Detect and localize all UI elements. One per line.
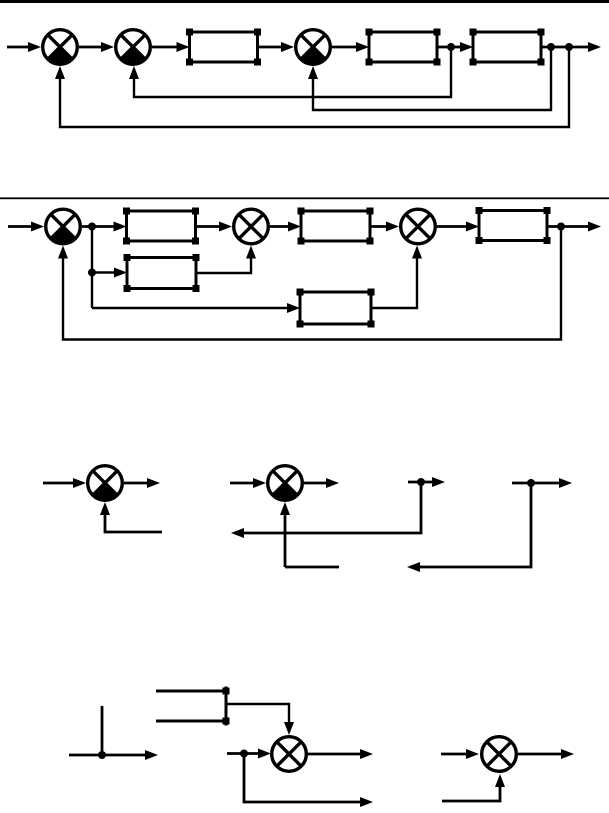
arrowhead output [588,222,601,232]
arrowhead into block H2 [287,303,300,313]
arrowhead fig3a output [147,478,160,488]
wire: S6 to block G6 [437,225,467,228]
wire: G5 to S6 [370,225,387,228]
arrowhead fig3c output [432,477,445,487]
arrowhead into block G1 [177,42,190,52]
node takeoff 2 [547,43,555,51]
arrowhead into summer S6 [386,222,399,232]
wire: G2 to block G3 with takeoff node [437,46,461,49]
wire: branch to block H1 [92,271,115,273]
wire: S3 to block G2 [332,46,357,49]
arrowhead into summer S1 [28,42,41,52]
summer S9 [272,737,307,772]
wire: H3 output over and down into S9 [228,704,290,723]
wire: fig4b lower branch [244,754,361,803]
arrowhead fig4c output [561,749,574,759]
summer S8 [268,466,303,501]
block G3 [473,32,541,62]
arrowhead into block H1 [114,268,127,278]
arrowhead into summer S4 [31,222,44,232]
wire: fig4a vertical stub [101,706,104,755]
node fig3c [417,478,425,486]
arrowhead up into S6 [412,246,422,259]
arrowhead fig4a output [145,750,158,760]
arrowhead up into S4 [58,246,68,259]
arrowhead into summer S3 [281,42,294,52]
wire: fig3c vertical down [244,482,421,533]
wire: fig3a input [43,482,74,485]
wire: fig4b main line [227,752,259,755]
block H1 [127,258,196,289]
arrowhead up into S2 [129,66,139,79]
arrowhead into summer S7 [73,478,86,488]
wire: fig3d takeoff line [512,482,560,485]
wire: G1 to S3 [258,46,283,49]
summer S3 [296,30,331,65]
wire: fig3d vertical down and left [420,483,531,567]
arrowhead up into S1 [55,66,65,79]
arrowhead up into S10 [495,774,505,787]
summer S10 [482,737,517,772]
wire: S4 to block G4 with takeoff node [82,225,115,228]
wire: fig3c takeoff line [408,481,433,484]
summer S2 [116,30,151,65]
wire: input [8,225,32,228]
arrowhead into summer S10 [466,749,479,759]
wire: H2 output up into S6 [371,258,417,308]
arrowhead into block G4 [114,222,127,232]
wire: S9 output [307,753,361,756]
block H3 (open left) [156,687,226,726]
block G1 [190,32,258,62]
block G4 [127,211,196,241]
wire: S2 to block G1 [152,46,178,49]
wire: G3 to output [541,46,588,49]
wire: branch 2 to block H2 [92,307,288,309]
wire: fig3a output [124,482,147,485]
wire: feedback loop A (node 451 down to S2) [134,47,451,97]
arrowhead up into S8 [280,502,290,515]
arrowhead into block G5 [288,222,301,232]
summer S1 [43,30,78,65]
summer S7 [88,466,123,501]
node branch [88,269,96,277]
wire: G6 to output [547,225,589,228]
arrowhead into summer S5 [219,222,232,232]
arrowhead into block G2 [356,42,369,52]
arrowhead fig4b output [360,749,373,759]
arrowhead left fig3c [231,528,244,538]
separator line between diagram 1 and diagram 2 [0,197,609,199]
arrowhead into block G6 [466,222,479,232]
arrowhead left fig3d [407,562,420,572]
arrowhead down into S9 [284,722,294,735]
node fig4b [240,750,248,758]
node fig3d [527,479,535,487]
arrowhead fig3d output [559,478,572,488]
summer S6 [401,209,436,244]
arrowhead fig3b output [326,478,339,488]
arrowhead into summer S2 [101,42,114,52]
wire: fig3a feedback L [105,514,162,532]
wire: fig3b bottom stub right [285,566,339,569]
wire: fig4c input [441,753,467,756]
top page border line [0,0,609,3]
arrowhead up into S3 [308,66,318,79]
wire: fig4c output [518,753,562,756]
node after G2 [447,43,455,51]
block G2 [369,32,437,62]
node takeoff after S4 [88,223,96,231]
node takeoff 3 [565,43,573,51]
wire: fig3b vertical up into S8 [284,514,287,567]
block G6 [479,211,547,241]
arrowhead into summer S8 [253,478,266,488]
arrowhead up into S5 [246,246,256,259]
arrowhead fig4b lower output [360,797,373,807]
wire: feedback loop C (node 569 down to S1) [60,47,569,127]
wire: H1 output up into S5 [196,258,251,273]
wire: feedback loop B (node 551 down to S3) [313,47,551,110]
node fig4a [98,751,106,759]
wire: fig3b output [304,482,326,485]
wire: outer feedback loop to S4 [63,227,561,340]
node output takeoff [557,223,565,231]
block G5 [301,211,370,241]
wire: G4 to S5 [196,225,221,228]
arrowhead into summer S9 [258,749,271,759]
arrowhead output C(s) [588,42,601,52]
wire: branch vertical from node 92 down [91,227,93,309]
summer S4 [46,209,81,244]
wire: fig3b input [230,482,254,485]
block H2 [300,292,371,324]
wire: fig4c feedback L [442,786,500,801]
wire: input R(s) [7,46,29,49]
wire: fig4a horizontal [69,754,146,757]
wire: S5 to block G5 [270,225,289,228]
arrowhead up into S7 [100,502,110,515]
arrowhead into block G3 [460,42,473,52]
wire: S1 to S2 [79,46,102,49]
summer S5 [234,209,269,244]
